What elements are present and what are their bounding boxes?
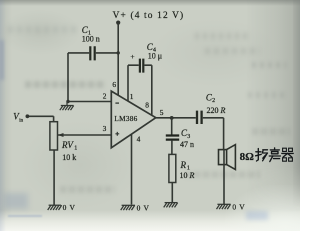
svg-text:100 n: 100 n <box>82 34 100 43</box>
svg-text:10 k: 10 k <box>62 153 76 162</box>
wire V+ vertical to pin 6 <box>117 23 119 96</box>
svg-text:V+ (4 to 12 V): V+ (4 to 12 V) <box>113 10 185 21</box>
svg-text:4: 4 <box>137 134 141 143</box>
wire output pin 5 <box>156 117 196 119</box>
char qi <box>282 148 293 161</box>
wire pin 3 <box>58 134 112 136</box>
node input terminal Vin <box>26 114 30 118</box>
ground (pin 4) <box>121 205 135 210</box>
svg-text:LM386: LM386 <box>114 114 137 123</box>
ground (R1) <box>164 203 178 208</box>
capacitor C2 <box>197 111 224 124</box>
svg-text:47 n: 47 n <box>180 140 194 149</box>
svg-text:+: + <box>130 52 134 61</box>
svg-text:0 V: 0 V <box>137 203 150 212</box>
wiper arrowhead RV1 <box>58 133 64 137</box>
wire pin 2 <box>68 101 111 103</box>
potentiometer RV1 <box>50 122 58 150</box>
wire speaker to ground <box>223 150 225 205</box>
svg-text:10 μ: 10 μ <box>148 51 162 60</box>
wire pin 8 <box>151 65 153 115</box>
svg-text:6: 6 <box>112 80 116 89</box>
svg-text:1: 1 <box>74 146 77 152</box>
svg-text:8Ω: 8Ω <box>240 151 255 163</box>
supply node dot <box>116 21 120 25</box>
svg-text:in: in <box>19 118 23 123</box>
wire pot to ground <box>53 150 55 205</box>
capacitor C1 <box>68 46 120 60</box>
svg-text:220 R: 220 R <box>207 106 226 115</box>
node output junction <box>170 116 174 120</box>
label speaker chinese 扬声器 <box>256 148 294 162</box>
svg-text:RV: RV <box>61 140 74 150</box>
char yang <box>256 149 268 162</box>
op-amp U1 LM386 triangle <box>111 91 156 148</box>
svg-text:10 R: 10 R <box>180 171 195 180</box>
minus sign pin2 <box>115 102 119 104</box>
ground (pin 2) <box>60 102 74 111</box>
resistor R1 <box>169 154 176 182</box>
ground (speaker) <box>217 204 231 209</box>
node junction C1/ground/pin2 <box>66 100 69 103</box>
char sheng <box>269 148 280 162</box>
svg-text:3: 3 <box>103 124 107 133</box>
svg-text:1: 1 <box>130 92 134 101</box>
wire to speaker <box>223 118 225 150</box>
svg-text:5: 5 <box>160 108 164 117</box>
wire R1 to ground <box>171 183 173 203</box>
faint bleed-through smudges <box>8 26 78 33</box>
wire C1 left down <box>67 53 69 102</box>
svg-text:3: 3 <box>187 134 190 140</box>
wire pin 1 <box>127 65 129 101</box>
svg-text:0 V: 0 V <box>63 203 76 212</box>
plus sign pin3 <box>115 132 119 136</box>
svg-text:0 V: 0 V <box>232 203 245 212</box>
svg-text:2: 2 <box>212 98 215 104</box>
wire pin 4 to ground <box>131 134 133 204</box>
capacitor C4 <box>128 59 152 73</box>
speaker LS1 <box>219 145 236 170</box>
ground (RV1) <box>48 205 62 210</box>
svg-text:8: 8 <box>145 100 149 109</box>
svg-text:2: 2 <box>103 91 107 100</box>
capacitor C3 <box>166 136 179 155</box>
wire C3 drop <box>171 118 173 135</box>
svg-text:R: R <box>180 160 187 170</box>
wire input to pot <box>27 116 53 121</box>
